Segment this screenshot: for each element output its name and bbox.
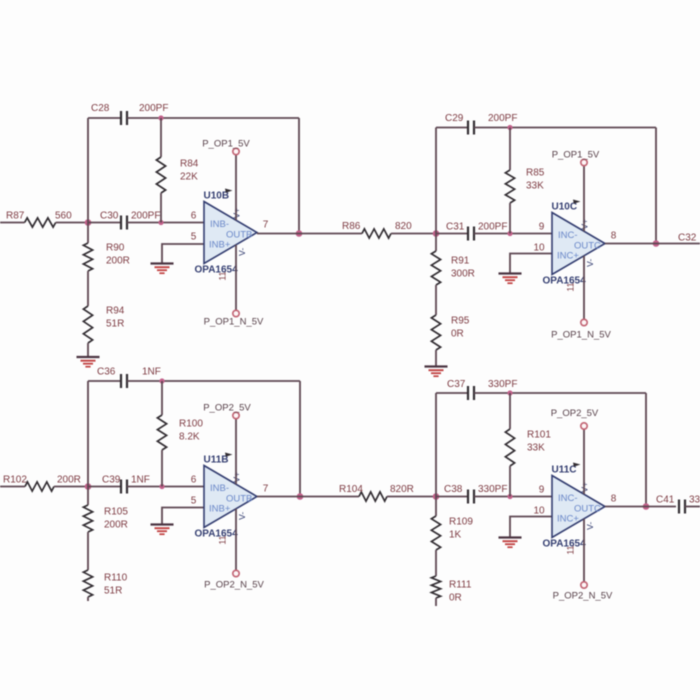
svg-text:P_OP2_N_5V: P_OP2_N_5V [204, 580, 264, 591]
svg-text:820: 820 [395, 221, 412, 232]
svg-text:U10C: U10C [552, 202, 578, 213]
svg-text:5: 5 [191, 232, 197, 243]
power P_OP1_5V stage2 [581, 159, 587, 165]
svg-text:300R: 300R [451, 269, 475, 280]
capacitor C29 [467, 121, 469, 135]
svg-text:6: 6 [191, 211, 197, 222]
op-amp U10C [552, 213, 605, 275]
resistor R110 [83, 570, 92, 597]
node output J stage2 [653, 240, 660, 247]
svg-text:V-: V- [237, 248, 247, 256]
svg-text:7: 7 [263, 484, 269, 495]
output wire stage1 [257, 233, 362, 235]
V- wire U11C [583, 519, 585, 582]
stage 3 input wire [0, 486, 25, 488]
svg-text:R95: R95 [451, 316, 470, 327]
svg-text:11: 11 [218, 535, 228, 544]
svg-text:51R: 51R [106, 319, 124, 330]
svg-text:7: 7 [263, 220, 269, 231]
svg-text:R105: R105 [104, 507, 128, 518]
node J3 [85, 483, 92, 490]
capacitor C28 [120, 111, 122, 125]
op-amp U11B [204, 466, 257, 528]
power P_OP2_5V [233, 412, 239, 418]
V+ wire U11B [235, 419, 237, 484]
wire J2 up to C29 row [435, 128, 437, 234]
wire below R111 [435, 598, 437, 606]
wire J4 to C38 [436, 496, 468, 498]
svg-text:R104: R104 [339, 484, 363, 495]
V- wire U11B [235, 509, 237, 571]
svg-text:C36: C36 [97, 367, 116, 378]
svg-text:33N: 33N [689, 495, 700, 506]
svg-text:P_OP2_5V: P_OP2_5V [551, 408, 599, 419]
svg-text:U11C: U11C [552, 465, 577, 476]
wire C38 to pin9 stage4 [474, 496, 552, 498]
wire C28 to feedback corner [127, 117, 299, 119]
svg-text:51R: 51R [104, 586, 122, 597]
wire R95 to ground [435, 350, 437, 367]
wire C37 to feedback corner stage4 [474, 392, 646, 394]
svg-text:INC-: INC- [558, 230, 578, 241]
wire J2 to C31 [436, 233, 468, 235]
svg-text:R100: R100 [179, 419, 203, 430]
feedback wire down stage4 [645, 393, 647, 507]
ground below R94 [77, 356, 100, 358]
wire R94 to ground [87, 343, 89, 357]
capacitor C30 [120, 216, 122, 230]
wire R105-R110 [87, 532, 89, 570]
svg-text:INC+: INC+ [557, 251, 579, 262]
svg-text:R101: R101 [527, 430, 551, 441]
resistor R90 [87, 223, 89, 244]
V+ wire U10C [583, 166, 585, 231]
svg-text:R84: R84 [180, 159, 199, 170]
op-amp U11C [552, 476, 605, 538]
V+ wire U10B [235, 155, 237, 220]
wire C41 to edge [685, 506, 700, 508]
svg-text:OPA1654: OPA1654 [195, 529, 239, 540]
wire C36 row left [88, 380, 121, 382]
svg-text:R111: R111 [449, 580, 472, 591]
svg-text:9: 9 [539, 485, 545, 496]
svg-text:C38: C38 [444, 484, 463, 495]
svg-text:P_OP1_N_5V: P_OP1_N_5V [551, 330, 611, 341]
svg-text:C30: C30 [100, 211, 119, 222]
svg-text:P_OP2_5V: P_OP2_5V [203, 403, 251, 414]
node R84 top [158, 115, 163, 120]
svg-text:OUTB: OUTB [226, 230, 252, 241]
svg-text:200R: 200R [104, 520, 128, 531]
node R84 bottom [158, 220, 163, 225]
power P_OP1_N_5V [233, 310, 239, 316]
svg-text:R91: R91 [451, 256, 470, 267]
svg-text:330PF: 330PF [488, 379, 517, 390]
svg-text:OUTC: OUTC [574, 241, 601, 252]
svg-text:C31: C31 [446, 222, 465, 233]
pin5 ground wire [162, 244, 204, 263]
svg-text:5: 5 [191, 496, 197, 507]
wire J4 up to C37 row [435, 393, 437, 497]
svg-text:U11B: U11B [204, 455, 229, 466]
resistor R85 [509, 128, 511, 171]
svg-text:V-: V- [585, 522, 595, 530]
svg-text:200R: 200R [57, 475, 81, 486]
svg-text:V-: V- [237, 512, 247, 520]
svg-text:1NF: 1NF [142, 367, 161, 378]
svg-text:INB+: INB+ [209, 240, 231, 251]
wire C31 to pin9 [474, 233, 552, 235]
resistor R111 [431, 576, 440, 598]
resistor R87 [25, 218, 56, 227]
svg-text:INB-: INB- [210, 483, 229, 494]
resistor R100 [161, 381, 163, 415]
node R100 bottom [159, 484, 164, 489]
svg-text:R87: R87 [6, 211, 25, 222]
svg-text:200PF: 200PF [139, 103, 168, 114]
node output J [296, 230, 303, 237]
resistor R104 [359, 492, 387, 501]
svg-text:R94: R94 [106, 306, 125, 317]
capacitor C38 [467, 490, 469, 504]
svg-text:INB-: INB- [210, 219, 229, 230]
wire R90-R94 [87, 271, 89, 306]
ground at pin5 [151, 262, 174, 264]
node J4 [433, 493, 440, 500]
svg-text:10: 10 [533, 506, 545, 517]
ground below R95 [425, 365, 448, 367]
capacitor C39 [120, 480, 122, 494]
svg-text:11: 11 [566, 282, 576, 291]
node R85 top [507, 125, 512, 130]
svg-text:R86: R86 [342, 221, 361, 232]
wire R86 to J2 [391, 233, 436, 235]
V- wire U10B [235, 245, 237, 310]
svg-text:OPA1654: OPA1654 [543, 539, 587, 550]
pin5 ground wire stage3 [162, 508, 204, 525]
svg-text:R109: R109 [449, 517, 473, 528]
feedback wire down [298, 118, 300, 234]
node output J stage4 [643, 503, 650, 510]
svg-text:V-: V- [585, 259, 595, 267]
node R85 bottom [507, 231, 512, 236]
output wire stage3 [257, 496, 359, 498]
resistor R101 [509, 393, 511, 429]
op-amp U10B [204, 202, 257, 264]
feedback wire down stage2 [655, 128, 657, 244]
resistor R109 [435, 497, 437, 517]
capacitor C31 [467, 227, 469, 241]
wire C29 to feedback corner [474, 127, 656, 129]
svg-text:INB+: INB+ [209, 504, 231, 515]
wire C36 to feedback corner stage3 [127, 380, 300, 382]
node R101 top [507, 390, 512, 395]
power P_OP2_N_5V stage4 [581, 582, 587, 588]
wire R109-R111 [435, 550, 437, 576]
svg-text:R102: R102 [3, 475, 27, 486]
power P_OP2_N_5V [233, 570, 239, 576]
feedback wire down stage3 [299, 381, 301, 497]
wire C28 row left [88, 117, 121, 119]
node J1 [85, 219, 92, 226]
wire J3 to C39 [88, 486, 121, 488]
svg-text:11: 11 [218, 271, 228, 280]
svg-text:0R: 0R [449, 593, 462, 604]
svg-text:C32: C32 [678, 233, 697, 244]
svg-text:200R: 200R [106, 256, 130, 267]
node output J stage3 [297, 493, 304, 500]
pin10 ground wire stage4 [510, 517, 552, 538]
V- wire U10C [583, 256, 585, 319]
svg-text:P_OP1_5V: P_OP1_5V [202, 139, 250, 150]
wire J1 up to C28 row [87, 118, 89, 223]
power P_OP2_5V stage4 [581, 423, 587, 429]
svg-text:560: 560 [55, 211, 72, 222]
wire R102 to node [54, 486, 88, 488]
svg-text:33K: 33K [526, 181, 544, 192]
svg-text:P_OP2_N_5V: P_OP2_N_5V [553, 591, 613, 602]
svg-text:10: 10 [533, 243, 545, 254]
svg-text:R110: R110 [104, 573, 128, 584]
svg-text:INC-: INC- [558, 493, 578, 504]
svg-text:200PF: 200PF [478, 222, 507, 233]
node R101 bottom [507, 494, 512, 499]
svg-text:R85: R85 [526, 168, 545, 179]
wire R91-R95 [435, 285, 437, 315]
ground at pin5 stage3 [151, 523, 174, 525]
svg-text:C28: C28 [91, 103, 110, 114]
svg-text:OPA1654: OPA1654 [195, 265, 239, 276]
wire C30 to pin6 [127, 222, 204, 224]
svg-text:C29: C29 [445, 113, 464, 124]
svg-text:9: 9 [539, 222, 545, 233]
output wire stage2 [605, 243, 700, 245]
power P_OP1_N_5V stage2 [581, 319, 587, 325]
svg-text:330PF: 330PF [478, 484, 507, 495]
svg-text:C37: C37 [447, 379, 466, 390]
svg-text:P_OP1_N_5V: P_OP1_N_5V [204, 317, 264, 328]
resistor R91 [435, 234, 437, 252]
svg-text:R90: R90 [106, 243, 125, 254]
capacitor C36 [120, 374, 122, 388]
svg-text:1NF: 1NF [131, 475, 150, 486]
wire C29 row left [436, 127, 468, 129]
wire J3 up to C36 row [87, 381, 89, 487]
wire R104 to J4 [387, 496, 436, 498]
wire C39 to pin6 stage3 [127, 486, 204, 488]
svg-text:6: 6 [191, 475, 197, 486]
svg-text:U10B: U10B [204, 191, 230, 202]
svg-text:8: 8 [611, 494, 617, 505]
svg-text:8.2K: 8.2K [179, 432, 200, 443]
svg-text:INC+: INC+ [557, 514, 579, 525]
svg-text:OUTC: OUTC [574, 504, 601, 515]
resistor R95 [431, 315, 440, 350]
resistor R84 [160, 118, 162, 157]
output wire stage4 [605, 506, 676, 508]
wire C37 row left [436, 392, 468, 394]
resistor R86 [362, 229, 391, 238]
stage 1 input wire [0, 222, 25, 224]
svg-text:0R: 0R [451, 329, 464, 340]
node R100 top [159, 378, 164, 383]
resistor R94 [83, 306, 92, 343]
power P_OP1_5V [233, 148, 239, 154]
resistor R102 [25, 482, 54, 491]
wire R87 to node [56, 222, 88, 224]
svg-text:820R: 820R [390, 484, 414, 495]
ground at pin10 stage4 [499, 536, 522, 538]
svg-text:200PF: 200PF [131, 211, 160, 222]
svg-text:C41: C41 [656, 495, 675, 506]
svg-text:OUTB: OUTB [226, 494, 252, 505]
svg-text:22K: 22K [180, 172, 198, 183]
resistor R105 [87, 487, 89, 506]
wire J1 to C30 [88, 222, 121, 224]
svg-text:33K: 33K [527, 443, 545, 454]
capacitor C41 [678, 500, 680, 514]
capacitor C37 [467, 386, 469, 400]
svg-text:200PF: 200PF [488, 113, 517, 124]
svg-text:OPA1654: OPA1654 [543, 276, 587, 287]
pin10 ground wire stage2 [510, 254, 552, 274]
svg-text:C39: C39 [102, 475, 121, 486]
V+ wire U11C [583, 429, 585, 494]
ground at pin10 stage2 [499, 272, 522, 274]
svg-text:8: 8 [611, 231, 617, 242]
svg-text:1K: 1K [449, 530, 462, 541]
svg-text:P_OP1_5V: P_OP1_5V [552, 150, 600, 161]
svg-text:11: 11 [566, 545, 576, 554]
node J2 [433, 230, 440, 237]
wire below R110 [87, 597, 89, 601]
